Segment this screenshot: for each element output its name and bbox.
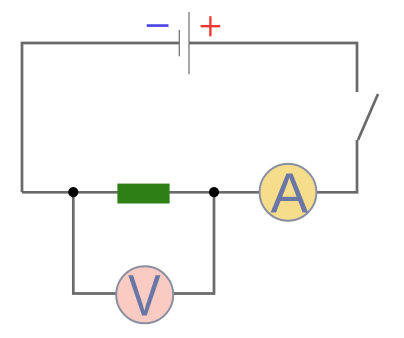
svg-text:A: A bbox=[271, 161, 309, 224]
label plus (battery positive) bbox=[201, 16, 221, 36]
resistor R1 bbox=[117, 184, 169, 204]
wire voltmeter branch left bbox=[73, 192, 116, 293]
svg-text:V: V bbox=[128, 265, 161, 329]
label minus (battery negative) bbox=[147, 24, 169, 27]
switch S1 blade (open) bbox=[358, 94, 378, 140]
ammeter A1 circle bbox=[260, 164, 317, 221]
wire voltmeter branch right bbox=[174, 192, 214, 293]
wire switch to ammeter bbox=[317, 140, 357, 192]
wire top-right (battery positive to switch) bbox=[189, 43, 357, 92]
wire top-left (battery negative to left rail) bbox=[22, 43, 179, 192]
node left junction dot bbox=[68, 187, 78, 197]
node right junction dot bbox=[209, 187, 219, 197]
battery B1 positive plate (long) bbox=[188, 12, 190, 74]
wire middle rail (left rail through resistor to ammeter) bbox=[22, 191, 259, 194]
battery B1 negative plate (short) bbox=[178, 30, 180, 56]
voltmeter V1 circle bbox=[116, 266, 173, 323]
